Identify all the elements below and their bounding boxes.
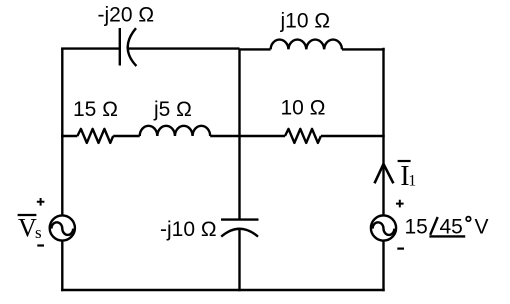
wire capacitor C1 to middle node top (128, 47, 240, 49)
wire left vertical bottom segment (61, 241, 63, 291)
overbar of Vs (18, 214, 37, 216)
wire inductor L2 to resistor R2 (210, 135, 285, 137)
wire top-left to capacitor C1 (61, 47, 120, 49)
wire resistor R1 to inductor L2 (113, 135, 140, 137)
wire left vertical top segment (61, 48, 63, 215)
wire middle-left node to resistor R1 (61, 135, 77, 137)
wire middle vertical top segment (238, 49, 240, 220)
svg-text:-j20 Ω: -j20 Ω (98, 3, 155, 26)
degree symbol of phasor (466, 217, 471, 222)
source V2 circle (371, 215, 396, 240)
wire right vertical bottom segment (382, 241, 384, 291)
wire right vertical top segment (382, 48, 384, 215)
inductor L1 j10 (271, 40, 342, 50)
source V2 sine wave (373, 222, 395, 235)
capacitor C2 -j10 curved plate (221, 229, 258, 237)
wire middle vertical bottom segment (238, 229, 240, 291)
source VS sine wave (51, 222, 73, 235)
wire resistor R2 to right rail (321, 135, 385, 137)
wire bottom horizontal (61, 289, 385, 291)
resistor R1 15 ohm zigzag (77, 129, 113, 143)
svg-text:45: 45 (440, 216, 463, 239)
resistor R2 10 ohm zigzag (285, 129, 321, 143)
svg-text:j5 Ω: j5 Ω (153, 98, 192, 121)
angle symbol slash of phasor (430, 217, 438, 235)
svg-text:10 Ω: 10 Ω (281, 96, 326, 119)
capacitor C1 -j20 curved plate (128, 28, 137, 66)
svg-text:s: s (35, 223, 42, 242)
plus sign left source (37, 198, 45, 206)
minus sign right source (397, 248, 404, 250)
svg-text:15 Ω: 15 Ω (73, 98, 118, 121)
capacitor C2 -j10 flat plate (221, 218, 259, 220)
svg-text:-j10 Ω: -j10 Ω (160, 218, 217, 241)
wire inductor L1 to top-right corner (342, 48, 385, 50)
capacitor C1 -j20 flat plate (119, 28, 121, 66)
plus sign right source (396, 200, 404, 208)
svg-text:1: 1 (408, 173, 416, 190)
angle symbol underline of phasor (429, 235, 465, 237)
source VS circle (50, 215, 75, 240)
wire middle node top to inductor L1 (240, 48, 271, 50)
inductor L2 j5 (140, 126, 210, 136)
svg-text:V: V (475, 216, 489, 239)
current arrow I1 head (375, 164, 394, 183)
overbar of I1 (398, 160, 411, 162)
svg-text:15: 15 (405, 216, 428, 239)
minus sign left source (37, 244, 44, 246)
svg-text:j10 Ω: j10 Ω (280, 10, 331, 33)
